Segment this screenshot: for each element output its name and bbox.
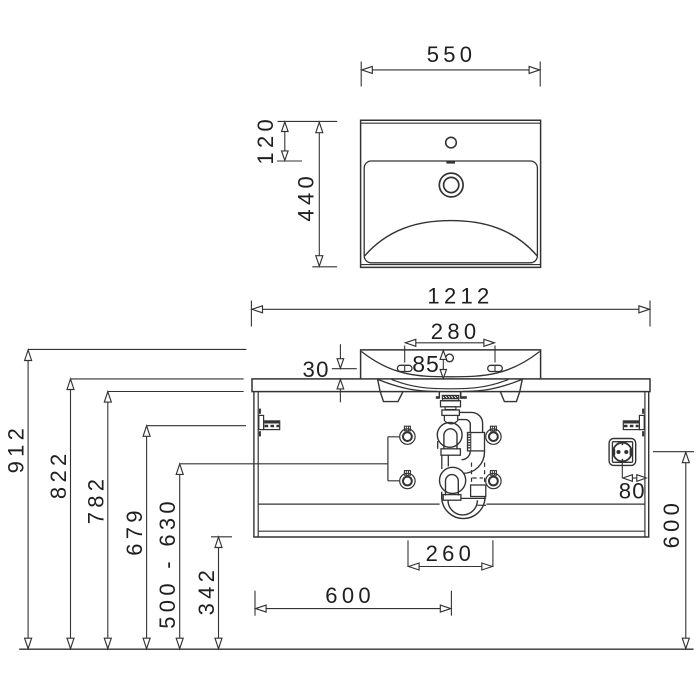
countertop slab bbox=[252, 379, 650, 392]
dimension 782 vertical line with arrows bbox=[107, 401, 109, 640]
dimension 822 extension line bbox=[71, 378, 244, 380]
power outlet side contacts bbox=[613, 449, 616, 455]
svg-text:500 - 630: 500 - 630 bbox=[155, 497, 180, 629]
siphon upper bend outer circle bbox=[437, 423, 462, 448]
cabinet right side panel outer bbox=[648, 392, 650, 537]
svg-text:822: 822 bbox=[46, 449, 71, 499]
cabinet right side panel inner bbox=[644, 392, 646, 537]
siphon lower left nut bbox=[443, 495, 461, 501]
svg-text:1212: 1212 bbox=[427, 284, 493, 309]
siphon upper white band bbox=[443, 399, 459, 401]
siphon outlet pipe upper line bbox=[459, 412, 483, 432]
left bracket wall ticks bbox=[259, 409, 261, 414]
cabinet bottom panel upper edge bbox=[258, 530, 645, 532]
right bracket wall ticks bbox=[642, 409, 644, 414]
dimension 80 leader from outlet bbox=[621, 461, 623, 478]
siphon upper union nut bbox=[468, 433, 485, 451]
dimension 342 extension line bbox=[211, 536, 232, 538]
right bracket arm dashed stripe bbox=[624, 425, 639, 427]
dimension 600 bottom extension lines bbox=[254, 591, 256, 616]
siphon lower horizontal pipe bbox=[461, 497, 487, 499]
left bracket arm top stripe bbox=[264, 421, 279, 423]
washbasin elevation front rim curve bbox=[362, 352, 540, 377]
dimension 550 extension line right bbox=[539, 62, 541, 87]
svg-text:912: 912 bbox=[4, 424, 29, 474]
siphon upper bend entry cup bbox=[445, 421, 457, 424]
screw reference bracket bbox=[388, 437, 399, 481]
siphon locking nut bbox=[441, 401, 461, 407]
dimension 30 upper arrow pointing down bbox=[339, 344, 341, 358]
dimension 440 line with arrows bbox=[318, 132, 320, 257]
dimension 822 vertical line with arrows bbox=[70, 389, 72, 640]
siphon lower band bbox=[442, 410, 460, 415]
mounting screw at 493,481 bbox=[486, 471, 501, 489]
dimension 1212 extension line right bbox=[649, 301, 651, 327]
overflow slot mark bbox=[446, 161, 455, 163]
dimension 260 line with arrows bbox=[417, 566, 484, 568]
svg-text:679: 679 bbox=[122, 506, 147, 556]
power outlet earth contacts bbox=[621, 442, 623, 445]
power outlet outer frame bbox=[609, 439, 636, 466]
dimension 912 vertical line with arrows bbox=[27, 360, 29, 640]
dimension 120 extension ticks bbox=[278, 120, 338, 122]
dimension 85 line with arrows bbox=[442, 358, 444, 372]
faucet hole (top view) bbox=[446, 137, 457, 148]
svg-text:85: 85 bbox=[412, 351, 439, 377]
siphon tailpiece flange (hatched) bbox=[442, 395, 458, 398]
siphon left down pipe bbox=[437, 441, 439, 449]
dimension 280 line with arrows bbox=[414, 342, 487, 344]
siphon lower bend inner U bbox=[446, 475, 459, 496]
siphon neck bbox=[443, 415, 445, 421]
bowl underside outer curve bbox=[378, 379, 522, 391]
mounting screw at 407,481 bbox=[400, 471, 415, 489]
siphon drain stub walls bbox=[438, 392, 440, 399]
basin underside right edge bbox=[520, 379, 523, 391]
left wall-mounting bracket strip bbox=[259, 415, 264, 429]
dimension 342 vertical line with arrows bbox=[218, 547, 220, 640]
dimension 500 - 630 extension line bbox=[180, 463, 388, 465]
dimension 782 extension line bbox=[108, 391, 244, 393]
dimension 120 line with arrows bbox=[284, 132, 286, 152]
basin underside left edge bbox=[378, 379, 381, 391]
siphon pipe walls between bends bbox=[441, 455, 443, 469]
svg-text:600: 600 bbox=[659, 499, 684, 549]
dimension 440 extension tick bottom bbox=[312, 266, 337, 268]
basin underside left support lug bbox=[380, 391, 403, 401]
power outlet socket circle bbox=[613, 443, 632, 462]
siphon elbow outer curve bbox=[463, 451, 484, 473]
drain inner ring (top view) bbox=[444, 177, 459, 192]
svg-text:550: 550 bbox=[427, 42, 477, 67]
dimension 550 extension line left bbox=[360, 62, 362, 87]
washbasin top view inner edge lines bbox=[361, 122, 540, 124]
right bracket arm top stripe bbox=[624, 421, 639, 423]
dimension 600 bottom line with arrows bbox=[265, 608, 443, 610]
dimension 500 - 630 vertical line with arrows bbox=[179, 473, 181, 639]
siphon flange side wing left bbox=[436, 396, 440, 399]
dimension 550 line with arrows bbox=[371, 69, 531, 71]
siphon bottom U inner curve bbox=[448, 500, 477, 515]
svg-text:120: 120 bbox=[253, 115, 278, 165]
drain outer ring (top view) bbox=[439, 173, 463, 197]
right wall-mounting bracket arm bbox=[623, 421, 639, 430]
svg-text:280: 280 bbox=[431, 319, 481, 344]
cabinet left side panel inner bbox=[257, 392, 259, 537]
dimension 30 upper tick line bbox=[332, 368, 357, 370]
right wall-mounting bracket strip bbox=[639, 415, 644, 429]
siphon elbow inner curve bbox=[462, 451, 471, 460]
mounting screw at 493,437 bbox=[486, 426, 501, 444]
dimension 1212 extension line left bbox=[250, 301, 252, 327]
svg-text:80: 80 bbox=[619, 478, 646, 503]
power outlet inner frame bbox=[612, 442, 632, 463]
dimension 1212 line with arrows bbox=[261, 308, 641, 310]
right dimension 600 top tick bbox=[653, 451, 694, 453]
floor line bbox=[19, 648, 693, 650]
mounting screw at 407,437 bbox=[400, 426, 415, 444]
drain outlet stub bbox=[438, 391, 440, 396]
siphon lower bend outer circle bbox=[440, 467, 466, 493]
svg-text:30: 30 bbox=[303, 357, 330, 382]
left bracket arm dashed stripe bbox=[265, 425, 280, 427]
siphon lower union fitting bbox=[471, 485, 486, 497]
cabinet interior bottom line left segment bbox=[258, 503, 439, 505]
dimension 260 extension lines bbox=[407, 540, 409, 567]
dimension 679 extension line bbox=[147, 425, 246, 427]
dimension 280 extension lines bbox=[404, 346, 406, 363]
svg-text:342: 342 bbox=[194, 566, 219, 616]
cabinet bottom outer edge bbox=[253, 536, 649, 538]
basin bowl rim (top view) bbox=[364, 161, 537, 263]
power outlet pin holes bbox=[617, 450, 620, 453]
faucet hole (elevation) bbox=[446, 354, 454, 362]
right fixing hole (elevation) bbox=[488, 365, 503, 371]
siphon bottom U outer curve bbox=[442, 492, 485, 519]
cabinet interior bottom line right segment bbox=[486, 503, 645, 505]
right dimension 600 line with arrows bbox=[685, 461, 687, 640]
bowl underside inner curve bbox=[392, 379, 509, 388]
dimension 80 line with arrows bbox=[631, 477, 639, 479]
washbasin top view outline bbox=[361, 120, 541, 267]
basin underside right support lug bbox=[500, 391, 520, 401]
dimension 912 extension line bbox=[28, 348, 246, 350]
svg-text:440: 440 bbox=[294, 172, 319, 222]
dimension 679 vertical line with arrows bbox=[146, 435, 148, 640]
svg-text:260: 260 bbox=[426, 541, 476, 566]
siphon flange side wing right bbox=[461, 396, 467, 399]
siphon hidden wall pipe (dashed) bbox=[471, 463, 473, 486]
siphon upper bend inner U bbox=[444, 429, 457, 450]
dimension 30 lower arrow pointing up bbox=[339, 390, 341, 403]
washbasin front elevation outline bbox=[361, 350, 541, 379]
left wall-mounting bracket arm bbox=[264, 421, 280, 430]
left fixing hole (elevation) bbox=[397, 365, 412, 371]
bowl front curve (top view) bbox=[365, 221, 538, 256]
siphon wide nut between bends bbox=[441, 449, 460, 455]
siphon nut lower collar bbox=[445, 407, 456, 410]
siphon outlet pipe lower line bbox=[459, 420, 471, 433]
cabinet left side panel outer bbox=[253, 392, 255, 537]
svg-text:782: 782 bbox=[83, 475, 108, 525]
svg-text:600: 600 bbox=[325, 583, 375, 608]
